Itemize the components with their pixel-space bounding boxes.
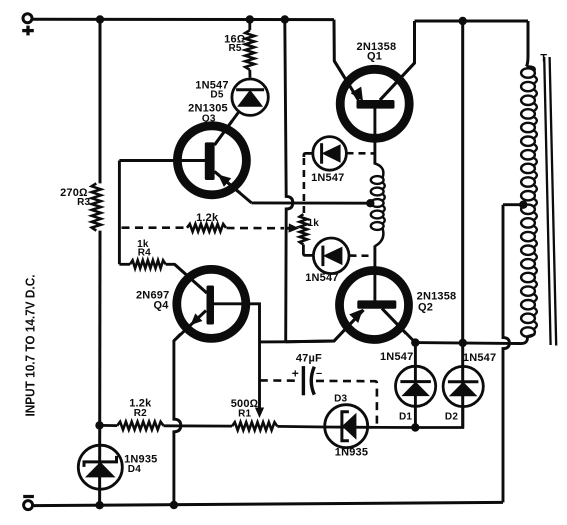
node bottom rail / D4 <box>95 501 103 509</box>
diode D5 1N547 <box>232 79 268 115</box>
svg-text:D5: D5 <box>210 89 223 100</box>
wire D1 bottom to D2 bottom <box>415 407 463 428</box>
wire D3 through-lead <box>325 426 368 429</box>
diode D4 1N935 (zener) <box>78 445 122 489</box>
wire 1k pot to lower 1N547 <box>303 245 313 256</box>
svg-text:1k: 1k <box>308 218 320 229</box>
node + rail / left vertical <box>96 15 104 23</box>
svg-text:1N547: 1N547 <box>463 352 496 364</box>
diode upper 1N547 (feedback) <box>313 137 347 171</box>
wire Q1 emitter drop from + rail <box>334 20 359 100</box>
wire Q3 collector to D5 <box>215 113 239 146</box>
wire upper 1N547 dashed to feedback coil <box>347 152 375 155</box>
label 1.2k (dashed) <box>196 212 219 224</box>
wire Q4 emitter vertical with hop over R2-R1 wire <box>174 334 181 505</box>
wire 1.2k wiper arrow to 1k pot <box>286 223 300 232</box>
label 1N547 D5 2N1305 Q3 <box>188 79 229 124</box>
label T transformer <box>540 53 547 65</box>
wire R5 to D5 <box>248 70 251 78</box>
transistor Q2 2N1358 <box>286 271 409 342</box>
wire Q4 collector with wiper arrow onto R1 <box>214 304 264 418</box>
wire R2-R1 middle section <box>164 424 233 427</box>
node top right rail / D2 branch <box>459 17 467 25</box>
label 1N547 upper feedback diode <box>311 172 344 184</box>
svg-text:Q4: Q4 <box>153 300 169 312</box>
node D1 bottom / D3 wire <box>411 423 419 431</box>
wire main left vertical upper (to R3) <box>99 19 102 183</box>
wire main left vertical lower (R3 to bottom rail, through D4) <box>98 231 101 506</box>
resistor 1k pot (feedback) <box>300 214 308 244</box>
wire transformer primary top lead <box>527 21 529 67</box>
wire 47uF dashed left <box>260 379 300 382</box>
wire center-tap vertical with hop over secondary-return (to bottom rail) <box>503 205 509 503</box>
svg-text:R2: R2 <box>134 408 147 419</box>
wire R4 left stub <box>119 263 130 266</box>
node coil tap (feedback winding) <box>366 199 374 207</box>
label 270ohm R3 <box>60 187 90 208</box>
svg-text:D1: D1 <box>399 411 412 422</box>
node + rail / R5 <box>246 15 254 23</box>
wire transformer center-tap horizontal <box>503 203 523 206</box>
capacitor 47uF <box>292 366 323 395</box>
wire Q2 collector diagonal <box>382 309 415 343</box>
label D3 1N935 <box>334 394 368 459</box>
label 16ohm R5 <box>224 34 246 54</box>
label 500ohm R1 <box>231 398 259 420</box>
wire 47uF dashed right then down to R1-D3 wire <box>316 381 377 424</box>
wire upper 1N547 left lead <box>304 153 312 157</box>
svg-text:INPUT 10.7 TO 14.7V D.C.: INPUT 10.7 TO 14.7V D.C. <box>23 275 38 417</box>
resistor R2 1.2k <box>117 422 163 430</box>
node D2 / secondary return <box>459 339 467 347</box>
node R3 / R2 / D4 <box>95 421 103 429</box>
wire left sub-vertical (Q3 base to R4) <box>118 161 121 265</box>
node bottom rail / Q4 emitter <box>170 501 178 509</box>
wire Q3 base <box>119 159 205 162</box>
label 47uF <box>296 353 322 365</box>
svg-text:D2: D2 <box>445 411 458 422</box>
wire upper 1N547 dashed drop to 1k pot <box>303 158 306 214</box>
diode D1 1N547 <box>396 366 436 406</box>
svg-text:Q2: Q2 <box>418 302 433 314</box>
svg-text:1N547: 1N547 <box>305 272 338 284</box>
wire 1.2k dashed left <box>122 226 187 229</box>
label 1k R4 <box>137 239 151 259</box>
diode lower 1N547 (feedback) <box>313 238 349 274</box>
wire lower 1N547 dashed to feedback coil <box>350 254 375 257</box>
diode D3 1N935 (zener) <box>325 405 368 448</box>
terminal + input <box>22 14 34 36</box>
wire R4 to Q4 base <box>166 264 207 293</box>
svg-text:D4: D4 <box>128 464 141 475</box>
wire Q2 emitter to Q4 collector line <box>260 340 286 343</box>
resistor 1.2k (dashed bias line) <box>187 224 226 232</box>
label 2N697 Q4 <box>136 289 169 311</box>
wire D2 branch vertical from top rail <box>461 21 464 428</box>
inductor feedback winding (between Q1 and Q2 bases) <box>371 164 385 247</box>
svg-text:R5: R5 <box>229 43 242 54</box>
node transformer center tap <box>519 201 527 209</box>
svg-text:–: – <box>316 367 322 379</box>
transistor Q3 2N1305 <box>177 121 246 195</box>
svg-text:D3: D3 <box>334 394 347 405</box>
wire coil tap horizontal (Q3 emitter to feedback coil) <box>252 201 370 204</box>
resistor R3 270ohm <box>92 183 101 230</box>
wire R2 left stub <box>100 424 118 427</box>
resistor R4 1k <box>130 260 166 268</box>
transistor Q4 2N697 <box>174 264 246 341</box>
wire Q1 base to feedback coil <box>373 109 376 165</box>
label 1N547 D1 <box>380 351 413 422</box>
wire R5 top stub <box>248 19 251 30</box>
label 1N935 D4 <box>124 453 157 475</box>
label 2N1358 Q1 <box>357 41 397 62</box>
wire D3 to D1 bottom <box>368 426 416 429</box>
label 2N1358 Q2 <box>417 291 457 314</box>
wire Q3 emitter to coil-tap line <box>215 172 252 203</box>
label INPUT 10.7 TO 14.7V D.C. <box>23 275 38 417</box>
wire Q2 collector node to transformer bottom <box>415 337 527 344</box>
wire center vertical with hop over coil-tap line (top rail to Q2 emitter) <box>285 20 293 342</box>
node + rail / center vertical <box>281 15 289 23</box>
wire bottom rail <box>32 502 503 505</box>
transistor Q1 2N1358 <box>334 61 414 138</box>
svg-text:Q1: Q1 <box>367 50 382 62</box>
svg-text:47µF: 47µF <box>296 353 322 365</box>
svg-text:1N547: 1N547 <box>311 172 344 184</box>
svg-text:R1: R1 <box>238 409 251 420</box>
label 1N547 D2 <box>445 352 496 422</box>
label 1N547 lower feedback diode <box>305 272 338 284</box>
terminal - input <box>23 497 34 510</box>
diode D2 1N547 <box>443 366 483 406</box>
svg-text:R3: R3 <box>77 197 90 208</box>
label 1k pot <box>308 218 320 229</box>
svg-text:Q3: Q3 <box>202 113 216 124</box>
wire R1 to D3 <box>277 425 325 428</box>
svg-text:+: + <box>292 366 299 380</box>
wire Q1 collector riser <box>380 21 415 100</box>
wire 1.2k dashed right <box>227 227 285 230</box>
svg-text:R4: R4 <box>138 248 151 259</box>
label 1.2k R2 <box>129 397 152 419</box>
wire Q2 emitter diagonal <box>286 310 364 342</box>
wire top rail right section <box>415 20 529 23</box>
wire feedback coil to Q2 base <box>373 246 376 301</box>
wire top rail (+) left section <box>32 18 334 21</box>
svg-text:1N547: 1N547 <box>380 351 413 363</box>
svg-text:1N935: 1N935 <box>335 446 368 458</box>
resistor R5 16ohm <box>245 30 254 70</box>
transformer T secondary (core lines) <box>544 57 556 346</box>
transformer T primary winding <box>521 66 537 336</box>
wire D1 branch vertical <box>414 343 417 428</box>
svg-text:1.2k: 1.2k <box>196 212 219 224</box>
svg-text:T: T <box>540 53 547 65</box>
resistor R1 500ohm <box>232 422 277 430</box>
node Q2 collector / D1 <box>411 338 419 346</box>
